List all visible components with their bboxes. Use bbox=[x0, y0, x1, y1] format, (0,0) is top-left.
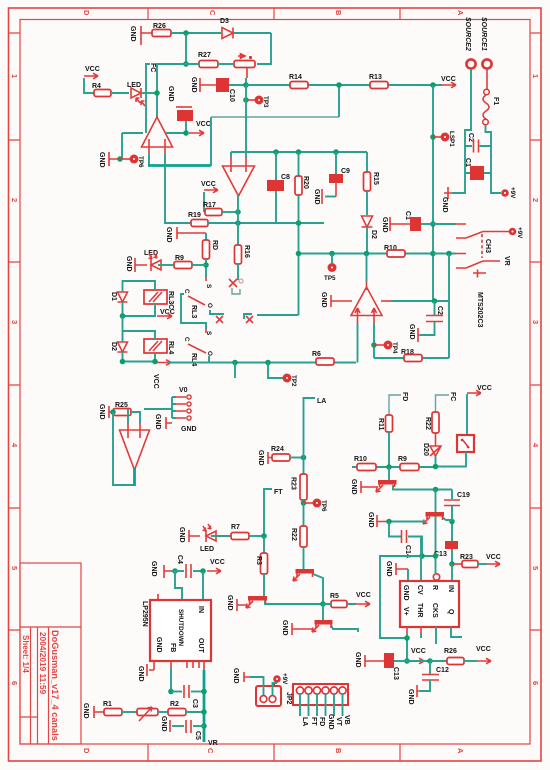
svg-text:A: A bbox=[456, 10, 465, 16]
node C4 right bbox=[200, 568, 206, 574]
node R20 top bbox=[296, 149, 302, 155]
node VCC row bbox=[404, 658, 410, 664]
svg-text:A: A bbox=[456, 748, 465, 754]
Q1 emitter rail bbox=[393, 485, 452, 490]
svg-text:R27: R27 bbox=[198, 52, 211, 59]
svg-text:FD: FD bbox=[318, 717, 325, 726]
node C9 top bbox=[333, 149, 339, 155]
svg-text:R22: R22 bbox=[290, 528, 297, 541]
wire R23 to TP6 node bbox=[303, 500, 305, 503]
svg-text:JP2: JP2 bbox=[285, 692, 292, 705]
capacitor C19 bbox=[451, 490, 453, 500]
wire trimmer to R2 bbox=[158, 711, 168, 713]
node TP4 bbox=[371, 342, 377, 348]
svg-text:TP6: TP6 bbox=[320, 500, 327, 512]
svg-text:B: B bbox=[334, 748, 343, 754]
svg-text:GND: GND bbox=[190, 77, 197, 93]
wire R22 to Q3 bbox=[303, 547, 305, 569]
node C14 drop bbox=[386, 519, 392, 525]
wire R13/R14 node down bbox=[338, 85, 340, 117]
svg-text:C13: C13 bbox=[392, 667, 399, 680]
diode D20 (X-style) bbox=[430, 446, 441, 456]
capacitor C10 bbox=[216, 78, 229, 92]
resistor R15 (vertical) bbox=[364, 172, 371, 191]
wire R26 to D3 node bbox=[171, 32, 221, 34]
svg-text:1: 1 bbox=[10, 74, 19, 78]
wire op1 inverting input down to R19 row bbox=[165, 154, 191, 223]
svg-text:CV: CV bbox=[416, 585, 423, 595]
relay coil RL3 bbox=[144, 290, 167, 304]
LSP1 spine bbox=[432, 85, 434, 302]
OUT spine down to VR bbox=[203, 670, 206, 742]
OUT pin bbox=[203, 661, 205, 670]
svg-text:VCC: VCC bbox=[477, 385, 492, 392]
svg-text:VB: VB bbox=[343, 715, 350, 725]
svg-text:D20: D20 bbox=[422, 443, 429, 456]
node D2/op3 column bbox=[364, 251, 370, 257]
fuse F1 bbox=[486, 69, 488, 89]
wires D2/coil RL4 loop bbox=[123, 331, 158, 362]
stub pin top-left bbox=[157, 594, 159, 600]
node C12 bbox=[427, 658, 433, 664]
+9V terminal at CH3 bbox=[509, 228, 517, 236]
wire R15 to D2 bbox=[366, 191, 368, 215]
capacitor C13 (lower) bbox=[384, 653, 394, 668]
wire C of RL3 staircase to S of RL4 bbox=[181, 294, 206, 330]
R19 rail to C9 column bbox=[208, 222, 324, 224]
svg-text:R14: R14 bbox=[289, 74, 302, 81]
R9 rail bbox=[352, 466, 436, 468]
svg-text:FB: FB bbox=[169, 643, 176, 652]
node R17/op2 out bbox=[235, 209, 241, 215]
svg-text:C10: C10 bbox=[228, 89, 235, 102]
JP2 connector box bbox=[293, 684, 348, 705]
resistor R22 (vertical lower) bbox=[300, 526, 307, 547]
svg-text:R22: R22 bbox=[424, 417, 431, 430]
node D2 bottom bbox=[120, 359, 126, 365]
svg-text:C1: C1 bbox=[404, 211, 411, 220]
svg-text:D1: D1 bbox=[110, 292, 117, 301]
wire O of RL4 to V0 rail bbox=[208, 356, 210, 363]
svg-text:VCC: VCC bbox=[85, 66, 100, 73]
node D20 column / emitter rail bbox=[433, 487, 439, 493]
svg-text:GND: GND bbox=[129, 26, 136, 42]
svg-text:GND: GND bbox=[226, 595, 233, 611]
svg-text:R: R bbox=[431, 585, 438, 590]
VENT connector box bbox=[256, 686, 281, 706]
svg-text:VCC: VCC bbox=[476, 646, 491, 653]
V0 rail bbox=[168, 362, 356, 364]
svg-text:VCC: VCC bbox=[411, 648, 426, 655]
wire LED2 to R7 bbox=[211, 535, 231, 537]
wire right corner down bbox=[257, 33, 271, 64]
svg-text:R24: R24 bbox=[271, 446, 284, 453]
switch CH3 link dashes bbox=[481, 234, 483, 258]
wire opto down to R9 rail bbox=[436, 452, 467, 467]
gray feedback rail y117 bbox=[211, 116, 339, 118]
svg-text:S: S bbox=[205, 284, 212, 288]
svg-text:GND: GND bbox=[232, 668, 239, 684]
svg-text:CKS: CKS bbox=[431, 603, 438, 618]
switch CH3 pole2 bbox=[456, 254, 500, 269]
svg-text:GND: GND bbox=[408, 324, 415, 340]
svg-text:LED: LED bbox=[200, 546, 214, 553]
test point TP4 bbox=[374, 344, 384, 346]
diode D2 (vertical) bbox=[362, 216, 373, 227]
switch CH3 pole1 bbox=[456, 224, 509, 238]
node C1 row / spine bbox=[430, 221, 436, 227]
svg-text:D: D bbox=[82, 10, 91, 16]
node R2/spine bbox=[201, 709, 207, 715]
svg-text:2004/2019 11:59: 2004/2019 11:59 bbox=[38, 632, 48, 695]
svg-text:LA: LA bbox=[301, 717, 308, 726]
wire D3 to right corner bbox=[233, 32, 271, 34]
svg-text:GND: GND bbox=[98, 404, 105, 420]
svg-text:C12: C12 bbox=[436, 667, 449, 674]
frame bottom zone ticks bbox=[148, 744, 400, 761]
transistor Q5 bbox=[322, 604, 324, 620]
main VCC rail top bbox=[246, 84, 442, 86]
node R20 bottom bbox=[296, 251, 302, 257]
svg-text:D2: D2 bbox=[110, 342, 117, 351]
wire C4 right down to IN pin bbox=[202, 571, 204, 600]
svg-text:CH3: CH3 bbox=[484, 239, 491, 253]
CH3 common tap symbol bbox=[473, 270, 486, 278]
node TP6 (lower) bbox=[301, 500, 307, 506]
svg-text:MTS202C3: MTS202C3 bbox=[476, 292, 483, 328]
node C14 on loop bbox=[419, 553, 425, 559]
wire VCC to R4 bbox=[84, 78, 94, 93]
wire op2 left input up to top rail bbox=[230, 152, 232, 158]
X mark no-connect 2 bbox=[244, 314, 299, 319]
wire op2 output down to rail bbox=[237, 196, 239, 223]
svg-text:R10: R10 bbox=[354, 456, 367, 463]
wire R9 to RD node bbox=[192, 264, 206, 266]
X mark under R16 bbox=[237, 264, 239, 280]
svg-text:IN: IN bbox=[447, 585, 454, 592]
svg-text:C2: C2 bbox=[436, 306, 443, 315]
JP2 pin circles bbox=[296, 687, 303, 694]
node D1 bottom bbox=[120, 313, 126, 319]
wire C10 to node bbox=[229, 84, 246, 86]
svg-text:C: C bbox=[183, 289, 190, 294]
node D20 bottom bbox=[433, 464, 439, 470]
svg-text:VCC: VCC bbox=[356, 592, 371, 599]
node C8 top bbox=[273, 149, 279, 155]
svg-text:TP6: TP6 bbox=[137, 156, 144, 168]
X mark no-connect 1 bbox=[210, 310, 224, 314]
resistor R3 (vertical) bbox=[263, 536, 265, 553]
wire VCC down to opto bbox=[466, 394, 468, 435]
connector pins V0 bbox=[176, 397, 186, 418]
node LSP1 bbox=[430, 134, 436, 140]
resistor R11 (vertical) bbox=[386, 415, 393, 432]
svg-text:GND: GND bbox=[167, 86, 174, 102]
node R14/R13 bbox=[336, 82, 342, 88]
IC U5 555 body bbox=[400, 581, 459, 627]
test point TP6 (left) bbox=[120, 158, 130, 160]
node FB/C3 bbox=[168, 689, 174, 695]
wire R7 to FT node bbox=[249, 535, 264, 537]
wires D1/coil RL3 loop bbox=[123, 281, 156, 316]
frame right zone ticks bbox=[530, 33, 541, 630]
svg-text:D: D bbox=[82, 748, 91, 754]
wire rail to CH3 pole2 bbox=[433, 253, 456, 255]
svg-text:C3: C3 bbox=[191, 699, 198, 708]
svg-text:6: 6 bbox=[531, 681, 540, 685]
R18 rail bbox=[374, 357, 449, 359]
wire VCC corner down to R17 bbox=[203, 192, 205, 212]
op1 input wires to bold bus bbox=[148, 154, 150, 166]
node VCC rail / LSP1 spine bbox=[430, 82, 436, 88]
+9V terminal (upper) bbox=[501, 189, 509, 197]
wire R25 to op4 input bbox=[128, 409, 140, 424]
capacitor C13 (upper) bbox=[445, 541, 458, 549]
node TP2 riser bbox=[265, 360, 271, 366]
svg-text:D2: D2 bbox=[370, 230, 377, 239]
svg-text:C: C bbox=[206, 748, 215, 754]
node R9/RD bbox=[203, 262, 209, 268]
svg-text:IN: IN bbox=[197, 606, 204, 613]
svg-text:R2: R2 bbox=[170, 701, 179, 708]
+9V terminal at VENT bbox=[273, 675, 281, 683]
svg-text:R5: R5 bbox=[330, 593, 339, 600]
svg-text:GND: GND bbox=[367, 512, 374, 528]
test point TP3 bbox=[243, 97, 249, 103]
wire C4 left down to SHUTDOWN pin bbox=[175, 571, 182, 600]
svg-text:R11: R11 bbox=[377, 418, 384, 431]
svg-text:THR: THR bbox=[416, 603, 423, 617]
svg-text:GND: GND bbox=[313, 189, 320, 205]
node R7/FT/R3 bbox=[261, 533, 267, 539]
svg-text:GND: GND bbox=[154, 414, 161, 430]
JP2 pin wires bbox=[300, 694, 343, 716]
svg-text:1: 1 bbox=[531, 74, 540, 78]
node V0 rail stub bbox=[232, 360, 238, 366]
op-amp U2 (pointing down) bbox=[223, 166, 255, 196]
trimmer pot (R1 row) bbox=[137, 709, 158, 716]
op3 output rail up to TP5 rail bbox=[366, 254, 368, 282]
op3 left input down to V0 rail bbox=[357, 323, 359, 363]
svg-text:V0: V0 bbox=[179, 387, 188, 394]
title block dividers bbox=[20, 627, 81, 744]
svg-text:GND: GND bbox=[150, 561, 157, 577]
wire op2 non-inv input spine bbox=[245, 85, 247, 158]
svg-text:C: C bbox=[208, 10, 217, 16]
wire R1 to trimmer bbox=[122, 711, 137, 713]
test point TP2 bbox=[268, 363, 283, 379]
svg-text:GND: GND bbox=[441, 197, 448, 213]
svg-text:VCC: VCC bbox=[196, 121, 211, 128]
svg-text:Sheet: 1/4: Sheet: 1/4 bbox=[21, 635, 30, 673]
svg-text:C8: C8 bbox=[281, 174, 290, 181]
svg-text:Q: Q bbox=[447, 609, 454, 615]
svg-text:RL3: RL3 bbox=[190, 305, 197, 318]
capacitor C3 bbox=[171, 691, 182, 693]
svg-text:2: 2 bbox=[531, 198, 540, 202]
resistor R23 (vertical) bbox=[300, 474, 307, 500]
transistor Q2 bbox=[248, 596, 267, 601]
svg-text:C: C bbox=[183, 337, 190, 342]
title block outline bbox=[20, 563, 81, 744]
resistor RD (vertical) bbox=[203, 240, 210, 259]
wire D2 down to TP5 rail bbox=[366, 227, 368, 254]
svg-text:GND: GND bbox=[137, 666, 144, 682]
svg-text:RL4: RL4 bbox=[167, 341, 174, 354]
svg-text:FC: FC bbox=[449, 392, 456, 401]
node R20 / R19 rail bbox=[296, 220, 302, 226]
svg-text:GND: GND bbox=[407, 689, 414, 705]
node TP6 bbox=[117, 156, 123, 162]
transistor Q3 bbox=[296, 569, 315, 574]
opto/relay box bbox=[457, 435, 474, 452]
svg-text:RD: RD bbox=[211, 240, 218, 250]
wire R24 to LA spine bbox=[290, 457, 304, 459]
R pin inversion bubble bbox=[433, 574, 439, 580]
svg-text:B: B bbox=[334, 10, 343, 16]
node C19/Q4 bbox=[449, 519, 455, 525]
riser CH3/R18 node down to op3 rail bbox=[448, 254, 450, 359]
node C3/spine bbox=[201, 689, 207, 695]
frame left zone ticks bbox=[9, 33, 21, 630]
svg-text:LSP1: LSP1 bbox=[448, 131, 455, 147]
svg-text:R23: R23 bbox=[290, 477, 297, 490]
V+ pin to loop bbox=[406, 627, 408, 634]
op4 feedback loop bbox=[113, 412, 135, 485]
svg-text:RL3C: RL3C bbox=[167, 291, 174, 309]
svg-text:C5: C5 bbox=[194, 731, 201, 740]
svg-text:GND: GND bbox=[165, 227, 172, 243]
potentiometer (trimmer by R27) bbox=[234, 61, 255, 68]
svg-text:5: 5 bbox=[10, 566, 19, 570]
resistor R16 (vertical) bbox=[237, 223, 239, 245]
svg-text:VT: VT bbox=[335, 717, 342, 727]
svg-text:FT: FT bbox=[310, 717, 317, 726]
op3 right input down to TP4 bbox=[373, 323, 375, 358]
wire SOURCE2 down bbox=[452, 69, 471, 193]
node C2 column top bbox=[432, 298, 438, 304]
svg-text:R13: R13 bbox=[369, 74, 382, 81]
svg-text:GND: GND bbox=[354, 652, 361, 668]
resistor R20 (vertical) bbox=[298, 152, 300, 223]
relay coil RL4 bbox=[144, 339, 167, 353]
svg-text:GND: GND bbox=[160, 716, 167, 732]
svg-text:2: 2 bbox=[10, 198, 19, 202]
capacitor C8 bbox=[275, 152, 277, 223]
svg-text:+9V: +9V bbox=[281, 673, 288, 685]
svg-text:GND: GND bbox=[350, 479, 357, 495]
wire node to IN pin bbox=[451, 564, 453, 581]
555 loop left bbox=[380, 556, 436, 638]
wires from V0 pins bbox=[144, 397, 176, 418]
bypass capacitor at op1 bbox=[177, 110, 193, 121]
node R25 feedback bbox=[110, 409, 116, 415]
wire D20 column down to 555 R pin bbox=[435, 490, 437, 574]
svg-text:LP295N: LP295N bbox=[141, 601, 148, 627]
svg-text:5: 5 bbox=[531, 566, 540, 570]
test point TP6 (lower) bbox=[304, 502, 314, 504]
svg-text:R9: R9 bbox=[398, 456, 407, 463]
svg-text:FC: FC bbox=[149, 63, 156, 72]
wire Q2 to R5 rail bbox=[265, 600, 323, 604]
node op1 VCC bbox=[183, 130, 189, 136]
node R26/D3 bbox=[183, 30, 189, 36]
wire op1 output to R27 bbox=[157, 64, 199, 119]
svg-text:GND: GND bbox=[82, 703, 89, 719]
GND at C5 bbox=[169, 720, 171, 732]
transistor Q4 bbox=[426, 512, 445, 517]
svg-text:GND: GND bbox=[320, 292, 327, 308]
VENT wires bbox=[250, 677, 277, 695]
wire R2 to spine bbox=[186, 711, 204, 713]
svg-text:C9: C9 bbox=[341, 168, 350, 175]
op-amp U4 (pointing down) bbox=[120, 430, 150, 470]
svg-text:R15: R15 bbox=[372, 172, 379, 185]
Q4 base wire bbox=[389, 521, 425, 523]
op3 right power wire bbox=[381, 300, 391, 302]
test point TP5 bbox=[331, 254, 333, 264]
node loop/R drop bbox=[433, 553, 439, 559]
wire F1 down staircase to +9V bbox=[486, 125, 502, 193]
svg-text:C1: C1 bbox=[464, 158, 471, 167]
op-amp U3 (pointing up) bbox=[351, 287, 382, 316]
capacitor C9 bbox=[335, 152, 337, 174]
node V+ / loop bbox=[404, 635, 410, 641]
node C5/spine bbox=[201, 723, 207, 729]
Q pin stub bbox=[451, 627, 462, 637]
svg-text:3: 3 bbox=[10, 320, 19, 324]
op-amp U1 (top-left, pointing up) bbox=[142, 117, 173, 147]
wire R17 to op2 output spine bbox=[222, 211, 238, 213]
wire RD down to S contact bbox=[205, 259, 207, 278]
node R27 row / D3 riser bbox=[183, 61, 189, 67]
svg-text:GND: GND bbox=[402, 585, 409, 601]
THR pin stub bbox=[420, 627, 422, 633]
wire bus corner up to gray feedback rail bbox=[210, 117, 212, 166]
svg-text:R3: R3 bbox=[255, 556, 262, 565]
svg-text:GND: GND bbox=[381, 217, 388, 233]
LED2 bbox=[203, 524, 217, 542]
svg-text:SHUTDOWN: SHUTDOWN bbox=[177, 609, 184, 647]
CKS pin stub bbox=[435, 627, 437, 644]
transistor bar end ticks bbox=[250, 484, 443, 629]
IC LP295N body bbox=[150, 600, 211, 661]
op4 output bold stub bbox=[133, 468, 136, 486]
svg-text:+9V: +9V bbox=[516, 227, 523, 239]
FB pin down to C3 row bbox=[170, 661, 172, 668]
svg-text:GND: GND bbox=[155, 637, 162, 653]
svg-text:R1: R1 bbox=[103, 701, 112, 708]
svg-text:R19: R19 bbox=[188, 212, 201, 219]
terminal LSP1 bbox=[433, 136, 441, 138]
transistor Q1 (FD) bbox=[388, 467, 390, 480]
capacitor C5 bbox=[193, 725, 204, 727]
svg-text:VCC: VCC bbox=[486, 554, 501, 561]
node R24/LA bbox=[301, 455, 307, 461]
wire R22 to D20 bbox=[435, 433, 437, 446]
svg-text:TP4: TP4 bbox=[391, 342, 398, 354]
GND pin bottom elbow bbox=[147, 661, 154, 676]
svg-text:VCC: VCC bbox=[441, 76, 456, 83]
VCC arrow at V0 rail start bbox=[157, 360, 171, 366]
wire C9 to GND bbox=[335, 183, 337, 197]
wire GND corner to RD bbox=[205, 233, 207, 240]
svg-text:GND: GND bbox=[125, 256, 132, 272]
svg-text:R20: R20 bbox=[302, 176, 309, 189]
bold wire bus under op1 bbox=[148, 164, 211, 167]
svg-text:TP3: TP3 bbox=[262, 96, 269, 108]
wire R11 down to Q base node bbox=[388, 432, 390, 467]
